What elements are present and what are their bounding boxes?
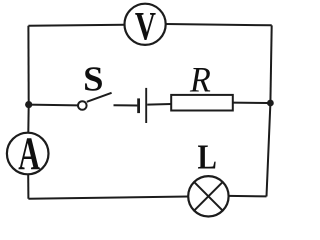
wire resistor to right junction [233, 102, 268, 104]
wire left-edge middle [27, 105, 29, 133]
svg-text:V: V [135, 4, 156, 49]
wire switch to battery [114, 104, 138, 106]
node junction left [25, 101, 32, 108]
wire left-edge lower [27, 175, 29, 199]
wire middle branch to switch [29, 104, 78, 107]
lamp cross stroke 1 [194, 182, 222, 210]
svg-text:R: R [189, 60, 211, 100]
svg-text:A: A [18, 127, 40, 179]
wire top-right segment [166, 24, 272, 25]
switch S1 pivot circle [78, 101, 87, 110]
wire bottom-right segment [229, 195, 267, 198]
wire battery to resistor [147, 103, 171, 106]
svg-text:L: L [198, 138, 217, 177]
wire top-left segment [28, 25, 124, 26]
wire right-edge upper [270, 25, 271, 103]
wire bottom-left segment [28, 197, 188, 199]
lamp L1 circle [188, 176, 228, 216]
ammeter A1 circle [7, 133, 49, 175]
resistor R1 box [171, 95, 233, 111]
switch S1 lever [87, 93, 112, 102]
lamp cross stroke 2 [194, 182, 222, 210]
wire left-edge upper [27, 26, 29, 105]
node junction right [267, 100, 274, 107]
wire right-edge lower [267, 103, 271, 196]
voltmeter V1 circle [125, 4, 166, 45]
svg-text:S: S [83, 59, 103, 98]
battery negative plate (short) [137, 98, 140, 113]
battery positive plate (long) [145, 88, 147, 123]
